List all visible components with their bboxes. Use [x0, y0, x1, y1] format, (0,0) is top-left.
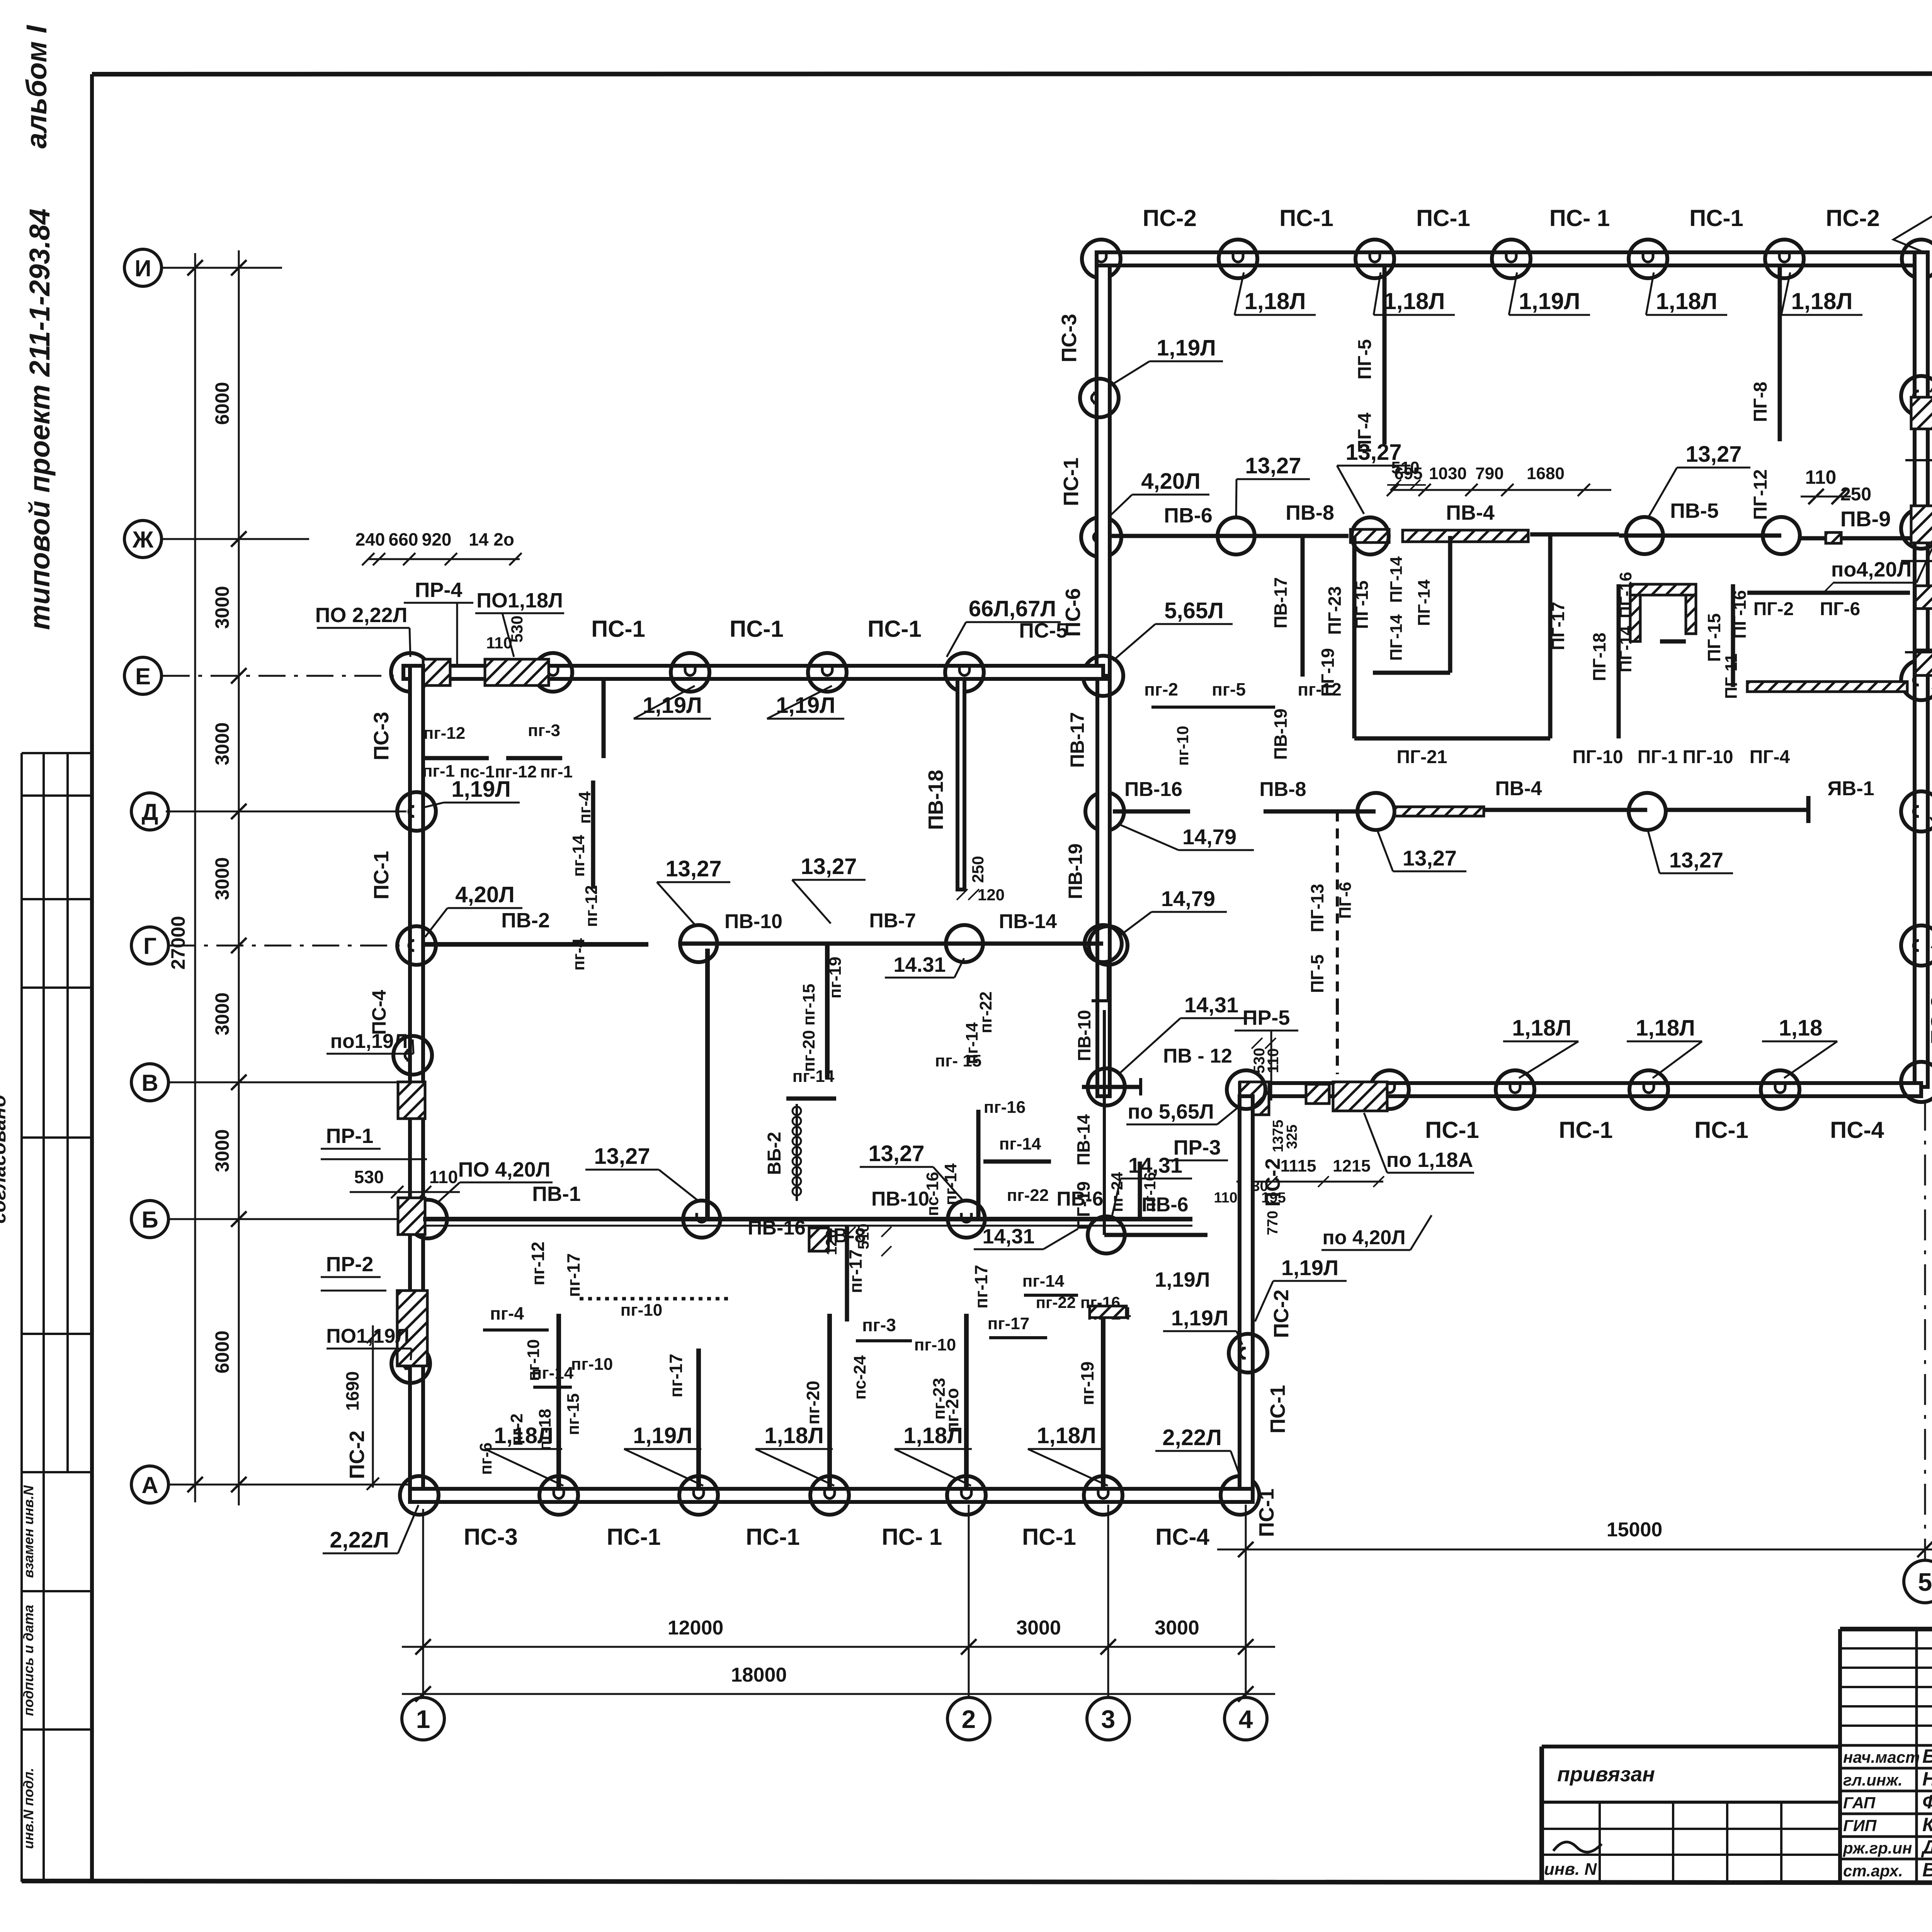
svg-text:110: 110 — [486, 634, 512, 652]
svg-text:1: 1 — [416, 1705, 430, 1733]
svg-text:14,79: 14,79 — [1182, 825, 1236, 849]
svg-text:Кирюшкин: Кирюшкин — [1922, 1814, 1932, 1835]
svg-text:пг-10: пг-10 — [914, 1335, 956, 1354]
svg-text:по 4,20Л: по 4,20Л — [1322, 1226, 1405, 1249]
svg-text:13,27: 13,27 — [1669, 848, 1723, 872]
svg-text:110: 110 — [1214, 1190, 1237, 1206]
svg-text:ПС-1: ПС-1 — [730, 616, 784, 642]
left building block: east wall — [1240, 1096, 1253, 1489]
svg-text:ПВ - 12: ПВ - 12 — [1163, 1045, 1232, 1067]
svg-text:ПС- 1: ПС- 1 — [882, 1524, 942, 1550]
svg-text:18000: 18000 — [731, 1664, 787, 1686]
svg-text:1115: 1115 — [1280, 1156, 1316, 1175]
svg-text:пг-1: пг-1 — [422, 762, 455, 781]
svg-text:110: 110 — [429, 1167, 458, 1187]
svg-text:ПГ-23: ПГ-23 — [1325, 586, 1345, 635]
svg-text:ПВ-1: ПВ-1 — [532, 1182, 581, 1206]
svg-text:пг-14: пг-14 — [1022, 1272, 1065, 1291]
svg-text:ПВ-4: ПВ-4 — [1495, 777, 1542, 800]
svg-text:пг-22: пг-22 — [1007, 1186, 1049, 1205]
svg-text:66Л,67Л: 66Л,67Л — [969, 596, 1056, 621]
svg-text:ЯВ-1: ЯВ-1 — [1827, 777, 1874, 800]
svg-text:ПВ-17: ПВ-17 — [1270, 577, 1291, 629]
axis letter circles and dimension lines — [124, 249, 162, 286]
svg-text:согласовано: согласовано — [0, 1095, 10, 1223]
svg-text:ПГ-14: ПГ-14 — [1387, 614, 1406, 661]
svg-text:пг-22: пг-22 — [976, 992, 995, 1034]
svg-text:по1,19Л: по1,19Л — [330, 1030, 408, 1053]
svg-text:ПС-3: ПС-3 — [1058, 314, 1081, 362]
svg-text:Д: Д — [142, 799, 158, 825]
svg-text:12000: 12000 — [668, 1617, 724, 1639]
svg-text:120: 120 — [978, 886, 1005, 904]
svg-text:ПС-2: ПС-2 — [345, 1430, 369, 1479]
svg-text:пг-10: пг-10 — [621, 1301, 663, 1320]
svg-text:1,18Л: 1,18Л — [1512, 1015, 1571, 1041]
svg-text:Ж: Ж — [132, 527, 154, 553]
svg-text:14,31: 14,31 — [1184, 993, 1238, 1017]
svg-text:3000: 3000 — [1155, 1617, 1199, 1639]
svg-text:ПВ-17: ПВ-17 — [1066, 712, 1088, 768]
svg-text:ПГ-6: ПГ-6 — [1820, 599, 1860, 619]
svg-text:ПВ-5: ПВ-5 — [1670, 499, 1719, 522]
svg-text:ст.арх.: ст.арх. — [1843, 1862, 1903, 1880]
svg-text:ПГ-16: ПГ-16 — [1730, 590, 1750, 639]
svg-text:пг-17: пг-17 — [563, 1253, 583, 1297]
svg-text:ПВ-16: ПВ-16 — [1124, 778, 1182, 801]
svg-text:ПВ-6: ПВ-6 — [1164, 504, 1213, 527]
svg-text:ПС-1: ПС-1 — [867, 616, 922, 642]
svg-text:пг-5: пг-5 — [1212, 679, 1246, 699]
right building block: north wall — [1097, 252, 1928, 265]
svg-text:ПГ-13: ПГ-13 — [1307, 884, 1327, 932]
svg-text:15000: 15000 — [1607, 1519, 1663, 1541]
svg-text:ПО 2,22Л: ПО 2,22Л — [315, 604, 408, 627]
svg-text:ПС- 1: ПС- 1 — [1549, 205, 1610, 231]
svg-text:3000: 3000 — [1016, 1617, 1061, 1639]
svg-text:1,18Л: 1,18Л — [1037, 1423, 1096, 1448]
svg-text:Башенков: Башенков — [1922, 1745, 1932, 1767]
svg-text:ПГ-10: ПГ-10 — [1572, 747, 1623, 767]
svg-text:ПС-4: ПС-4 — [368, 990, 390, 1035]
svg-text:ПС-1: ПС-1 — [1559, 1117, 1613, 1143]
svg-text:пг-15: пг-15 — [799, 984, 818, 1026]
svg-text:ПГ-8: ПГ-8 — [1750, 382, 1771, 422]
svg-text:пг-19: пг-19 — [826, 957, 845, 999]
title block — [1542, 1745, 1840, 1748]
svg-text:пг-17: пг-17 — [666, 1354, 686, 1397]
svg-text:Б: Б — [141, 1207, 158, 1233]
svg-text:Назаров: Назаров — [1922, 1768, 1932, 1790]
svg-text:1,19Л: 1,19Л — [1155, 1268, 1210, 1291]
svg-text:пс-1: пс-1 — [460, 762, 495, 781]
svg-text:2,22Л: 2,22Л — [1162, 1425, 1222, 1450]
svg-text:по4,20Л: по4,20Л — [1831, 558, 1912, 581]
svg-text:1,18Л: 1,18Л — [1656, 288, 1718, 314]
svg-text:ПС-1: ПС-1 — [1255, 1488, 1278, 1537]
svg-text:1215: 1215 — [1333, 1156, 1371, 1175]
left stamp column — [20, 753, 23, 1882]
svg-text:пг-12: пг-12 — [495, 762, 537, 781]
svg-text:ПВ-10: ПВ-10 — [871, 1188, 929, 1210]
svg-text:790: 790 — [1475, 464, 1503, 483]
svg-text:ПС-2: ПС-2 — [1261, 1158, 1284, 1207]
svg-text:пг-4: пг-4 — [490, 1303, 524, 1323]
svg-text:пг-15: пг-15 — [564, 1393, 583, 1435]
svg-text:ПГ-1: ПГ-1 — [1638, 747, 1678, 767]
svg-text:ПВ-14: ПВ-14 — [999, 910, 1057, 933]
svg-text:пг-2: пг-2 — [507, 1413, 526, 1446]
svg-text:пг-16: пг-16 — [1141, 1172, 1159, 1212]
svg-text:ПВ-16: ПВ-16 — [748, 1217, 806, 1239]
svg-text:4,20Л: 4,20Л — [455, 882, 515, 907]
svg-text:1,18Л: 1,18Л — [1791, 288, 1853, 314]
svg-text:1,18: 1,18 — [1779, 1015, 1823, 1041]
svg-text:Воловер: Воловер — [1922, 1859, 1932, 1881]
svg-text:660: 660 — [389, 529, 418, 549]
svg-text:ПГ-15: ПГ-15 — [1352, 580, 1372, 629]
svg-text:2,22Л: 2,22Л — [330, 1527, 389, 1553]
svg-text:ПР-3: ПР-3 — [1173, 1136, 1221, 1159]
svg-text:ПС-1: ПС-1 — [1425, 1117, 1479, 1143]
svg-text:пг-2: пг-2 — [1144, 679, 1178, 699]
svg-text:пг-14: пг-14 — [941, 1163, 960, 1205]
svg-text:ПГ-17: ПГ-17 — [1548, 602, 1568, 650]
left building block: north wall — [403, 666, 1103, 679]
svg-text:пг-18: пг-18 — [536, 1409, 554, 1451]
svg-text:ПГ-2: ПГ-2 — [1753, 599, 1794, 619]
svg-text:13,27: 13,27 — [801, 854, 857, 879]
svg-text:пг-6: пг-6 — [476, 1442, 495, 1475]
svg-text:14.31: 14.31 — [893, 953, 946, 976]
svg-text:ПВ-10: ПВ-10 — [1074, 1010, 1094, 1061]
svg-text:пг-12: пг-12 — [1298, 679, 1341, 699]
svg-text:ПВ-14: ПВ-14 — [1073, 1114, 1094, 1165]
svg-text:Дунаев: Дунаев — [1921, 1836, 1932, 1858]
svg-text:Г: Г — [143, 933, 156, 959]
svg-text:ПВ-8: ПВ-8 — [1286, 501, 1334, 524]
svg-text:14,31: 14,31 — [982, 1225, 1034, 1248]
svg-text:инв.N подл.: инв.N подл. — [20, 1768, 36, 1849]
svg-text:пг-1: пг-1 — [540, 762, 573, 781]
svg-text:5: 5 — [1918, 1568, 1932, 1596]
svg-text:ПО 4,20Л: ПО 4,20Л — [458, 1158, 551, 1181]
svg-text:пг- 15: пг- 15 — [935, 1051, 982, 1070]
svg-text:ПГ-18: ПГ-18 — [1589, 633, 1609, 681]
svg-text:пг-14: пг-14 — [569, 835, 588, 877]
svg-text:ПС-2: ПС-2 — [1826, 205, 1880, 231]
svg-text:510: 510 — [855, 1224, 872, 1250]
svg-text:пг-23: пг-23 — [930, 1378, 949, 1420]
svg-text:3: 3 — [1101, 1705, 1116, 1733]
svg-text:пг-3: пг-3 — [862, 1315, 896, 1335]
svg-text:ПС-1: ПС-1 — [1266, 1385, 1289, 1434]
svg-text:нач.маст: нач.маст — [1843, 1748, 1920, 1766]
svg-text:14 2о: 14 2о — [469, 529, 514, 549]
svg-text:ПС-1: ПС-1 — [607, 1524, 661, 1550]
svg-text:по 5,65Л: по 5,65Л — [1128, 1100, 1214, 1123]
interior partitions of left block — [423, 756, 489, 760]
svg-text:пг-19: пг-19 — [1077, 1361, 1097, 1405]
svg-text:ПС-1: ПС-1 — [1689, 205, 1743, 231]
svg-text:ВБ-2: ВБ-2 — [764, 1132, 785, 1175]
svg-text:13,27: 13,27 — [1403, 846, 1457, 870]
svg-text:ПВ-4: ПВ-4 — [1446, 501, 1495, 524]
svg-text:рж.гр.ин: рж.гр.ин — [1843, 1839, 1912, 1857]
svg-text:ПВ-6: ПВ-6 — [1056, 1188, 1103, 1210]
svg-text:гл.инж.: гл.инж. — [1843, 1771, 1903, 1789]
svg-text:ПС-8: ПС-8 — [1927, 996, 1932, 1044]
svg-text:ПР-5: ПР-5 — [1243, 1006, 1290, 1029]
svg-text:13,27: 13,27 — [665, 856, 721, 881]
svg-text:1,18Л: 1,18Л — [764, 1423, 824, 1448]
svg-text:5,65Л: 5,65Л — [1164, 598, 1224, 623]
svg-text:ПС-2: ПС-2 — [1270, 1289, 1293, 1338]
axis number circles and dimension lines — [402, 1697, 444, 1740]
svg-text:ПС-1: ПС-1 — [370, 851, 393, 900]
svg-text:1,19Л: 1,19Л — [1156, 335, 1216, 361]
svg-text:ПВ-2: ПВ-2 — [501, 909, 550, 932]
svg-text:пг-10: пг-10 — [1173, 726, 1192, 766]
svg-text:альбом I: альбом I — [20, 25, 53, 148]
svg-text:3000: 3000 — [211, 992, 233, 1035]
svg-text:6000: 6000 — [211, 1330, 233, 1373]
svg-text:ПВ-10: ПВ-10 — [724, 910, 782, 933]
svg-text:ПР-2: ПР-2 — [326, 1253, 374, 1276]
svg-text:ПГ-15: ПГ-15 — [1704, 613, 1724, 662]
svg-text:инв. N: инв. N — [1544, 1860, 1597, 1879]
svg-text:ПВ-19: ПВ-19 — [1270, 709, 1291, 760]
svg-text:1,19Л: 1,19Л — [1171, 1306, 1228, 1330]
svg-text:110: 110 — [1265, 1048, 1282, 1073]
right building block: east wall — [1915, 252, 1928, 1087]
svg-text:ПГ-12: ПГ-12 — [1750, 469, 1771, 520]
sheet frame — [92, 73, 1932, 74]
right building block: south wall — [1240, 1083, 1921, 1096]
svg-text:ПВ-7: ПВ-7 — [869, 910, 916, 932]
svg-text:пг-3: пг-3 — [528, 721, 560, 740]
svg-text:250: 250 — [1840, 484, 1871, 505]
svg-text:пг-17: пг-17 — [845, 1249, 866, 1293]
svg-text:110: 110 — [1805, 466, 1837, 488]
svg-text:ГИП: ГИП — [1843, 1816, 1877, 1835]
svg-text:ПС-1: ПС-1 — [591, 616, 645, 642]
svg-text:ПО1,18Л: ПО1,18Л — [476, 589, 563, 612]
svg-text:пг-12: пг-12 — [528, 1242, 548, 1285]
svg-text:770: 770 — [1265, 1211, 1281, 1235]
svg-text:3000: 3000 — [211, 857, 233, 900]
svg-text:13,27: 13,27 — [868, 1141, 924, 1166]
svg-text:14,79: 14,79 — [1161, 886, 1215, 911]
svg-text:пг-14: пг-14 — [999, 1134, 1041, 1153]
svg-text:Филиппов: Филиппов — [1922, 1791, 1932, 1813]
svg-text:ПС-1: ПС-1 — [1060, 457, 1083, 506]
svg-text:пг-16: пг-16 — [984, 1098, 1026, 1117]
svg-text:ПС-4: ПС-4 — [1929, 280, 1932, 330]
svg-text:1,19Л: 1,19Л — [1281, 1255, 1338, 1280]
svg-text:ПГ-5: ПГ-5 — [1307, 954, 1327, 993]
svg-text:ПВ-8: ПВ-8 — [1259, 778, 1306, 801]
svg-text:пг-17: пг-17 — [988, 1314, 1030, 1333]
svg-text:пг-14: пг-14 — [532, 1364, 574, 1383]
svg-text:И: И — [134, 255, 151, 281]
svg-text:3000: 3000 — [211, 1129, 233, 1172]
svg-text:ПС-1: ПС-1 — [1694, 1117, 1748, 1143]
svg-text:27000: 27000 — [167, 916, 189, 969]
svg-text:240: 240 — [355, 529, 385, 549]
svg-text:1,19Л: 1,19Л — [1519, 288, 1580, 314]
svg-text:ПГ-4: ПГ-4 — [1355, 413, 1375, 453]
svg-text:привязан: привязан — [1557, 1763, 1655, 1786]
svg-text:В: В — [141, 1070, 158, 1096]
svg-text:530: 530 — [354, 1167, 384, 1187]
svg-text:пг-10: пг-10 — [571, 1355, 613, 1374]
svg-text:13,27: 13,27 — [594, 1144, 650, 1169]
svg-text:4,20Л: 4,20Л — [1141, 469, 1201, 494]
svg-text:1690: 1690 — [342, 1371, 362, 1411]
svg-text:ПГ-14: ПГ-14 — [1387, 556, 1406, 603]
svg-text:2: 2 — [962, 1705, 976, 1733]
svg-text:13,27: 13,27 — [1685, 442, 1742, 467]
svg-text:ПО1,19Л: ПО1,19Л — [326, 1325, 410, 1347]
svg-text:1,18Л: 1,18Л — [1384, 288, 1445, 314]
svg-text:ПС-3: ПС-3 — [370, 712, 393, 760]
svg-text:типовой проект 211-1-293.84: типовой проект 211-1-293.84 — [24, 209, 56, 630]
svg-text:пг-12: пг-12 — [423, 724, 466, 743]
svg-text:пг-20: пг-20 — [803, 1381, 823, 1424]
left building block: south wall — [410, 1489, 1253, 1502]
svg-text:ПС-4: ПС-4 — [1830, 1117, 1884, 1143]
svg-text:325: 325 — [1284, 1124, 1300, 1149]
svg-text:ПР-4: ПР-4 — [415, 578, 463, 602]
svg-text:250: 250 — [969, 856, 987, 883]
svg-text:пг-24: пг-24 — [1108, 1172, 1126, 1212]
svg-text:120: 120 — [823, 1230, 840, 1255]
svg-text:ПГ-5: ПГ-5 — [1355, 339, 1375, 379]
svg-text:пс-24: пс-24 — [850, 1355, 869, 1400]
svg-text:6000: 6000 — [211, 382, 233, 425]
svg-text:ПВ-19: ПВ-19 — [1065, 844, 1086, 899]
svg-text:ПС-1: ПС-1 — [1022, 1524, 1076, 1550]
svg-text:1030: 1030 — [1429, 464, 1467, 483]
svg-text:А: А — [141, 1472, 158, 1498]
svg-text:ПГ-10: ПГ-10 — [1682, 747, 1733, 767]
svg-text:1,18Л: 1,18Л — [1245, 288, 1306, 314]
svg-text:3000: 3000 — [211, 722, 233, 765]
svg-text:13,27: 13,27 — [1245, 453, 1301, 478]
svg-text:по 1,18А: по 1,18А — [1386, 1148, 1473, 1172]
svg-text:взамен инв.N: взамен инв.N — [20, 1485, 36, 1578]
svg-text:ПВ-18: ПВ-18 — [924, 770, 947, 830]
svg-text:пг-14: пг-14 — [793, 1067, 835, 1086]
svg-text:ПГ-11: ПГ-11 — [1722, 653, 1741, 699]
svg-text:ПГ-6: ПГ-6 — [1336, 882, 1355, 919]
svg-text:ПС-1: ПС-1 — [1416, 205, 1470, 231]
svg-text:ПГ-14: ПГ-14 — [1415, 579, 1434, 626]
svg-text:920: 920 — [422, 529, 452, 549]
svg-text:ПВ-9: ПВ-9 — [1840, 507, 1891, 531]
svg-text:ПГ-21: ПГ-21 — [1396, 747, 1447, 767]
svg-text:ПГ-4: ПГ-4 — [1750, 747, 1790, 767]
svg-text:ГАП: ГАП — [1843, 1794, 1876, 1812]
svg-text:ПС-4: ПС-4 — [1155, 1524, 1209, 1550]
svg-text:ПС-1: ПС-1 — [746, 1524, 800, 1550]
svg-text:1,19Л: 1,19Л — [643, 693, 702, 718]
svg-text:695: 695 — [1394, 464, 1422, 483]
svg-text:Е: Е — [135, 663, 151, 689]
svg-text:пг-20: пг-20 — [799, 1030, 818, 1072]
svg-text:подпись и дата: подпись и дата — [20, 1605, 36, 1716]
svg-text:пг-12: пг-12 — [582, 885, 601, 927]
svg-text:ПС-3: ПС-3 — [464, 1524, 518, 1550]
svg-text:1,19Л: 1,19Л — [776, 693, 835, 718]
svg-text:4: 4 — [1239, 1705, 1253, 1733]
left building block: west wall — [410, 666, 423, 1502]
svg-text:ПР-1: ПР-1 — [326, 1124, 374, 1148]
svg-text:1,18Л: 1,18Л — [1636, 1015, 1695, 1041]
svg-text:3000: 3000 — [211, 586, 233, 629]
svg-text:ПС-1: ПС-1 — [1279, 205, 1333, 231]
svg-text:1,19Л: 1,19Л — [633, 1423, 692, 1448]
svg-text:1680: 1680 — [1527, 464, 1565, 483]
svg-text:пг-17: пг-17 — [971, 1265, 991, 1308]
svg-text:ПС-2: ПС-2 — [1143, 205, 1197, 231]
